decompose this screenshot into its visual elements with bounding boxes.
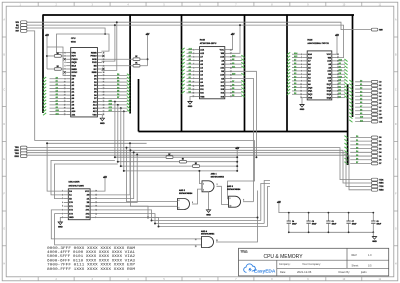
svg-text:A9: A9 [339, 65, 341, 68]
resistor R1 1K RDY pullup [54, 55, 61, 58]
svg-text:A3: A3 [189, 69, 191, 72]
svg-text:Sheet:: Sheet: [352, 264, 360, 267]
capacitor C5 100nF [306, 212, 316, 234]
svg-text:A1: A1 [360, 83, 362, 86]
svg-text:A11: A11 [232, 65, 235, 68]
wire RXD1 across sheet [27, 150, 371, 183]
svg-text:SOB: SOB [92, 59, 97, 61]
svg-text:100nF: 100nF [292, 224, 297, 226]
svg-text:TXD1: TXD1 [15, 147, 19, 149]
wire +5V rail for SOB BE pullups [147, 38, 149, 66]
svg-text:A4: A4 [294, 69, 296, 72]
resistor R7 1K [180, 160, 187, 163]
svg-text:A2: A2 [360, 87, 362, 90]
wire A15 tap vertical to pullup row [114, 102, 116, 158]
svg-text:D7: D7 [379, 163, 381, 165]
capacitor C8 100nF [371, 212, 381, 234]
svg-text:C8: C8 [377, 221, 379, 223]
svg-text:EasyEDA: EasyEDA [254, 268, 276, 274]
wire A12 tap vertical to pullup row [123, 111, 125, 171]
svg-text:D3: D3 [232, 95, 234, 97]
ground decoder [60, 217, 64, 222]
svg-text:D6: D6 [379, 159, 381, 161]
svg-text:A5: A5 [294, 65, 296, 68]
svg-text:3: 3 [217, 184, 218, 186]
svg-text:AND 3: AND 3 [227, 185, 234, 188]
svg-text:RXD1: RXD1 [15, 150, 19, 152]
svg-text:D0: D0 [189, 84, 191, 86]
svg-text:A5: A5 [360, 98, 362, 101]
svg-text:A13: A13 [109, 106, 112, 109]
svg-text:D4: D4 [339, 92, 341, 95]
capacitor C7 100nF [346, 212, 356, 234]
svg-text:D2: D2 [294, 93, 296, 95]
svg-text:D: D [3, 123, 5, 126]
svg-text:SN74HCT139N: SN74HCT139N [69, 184, 85, 187]
svg-text:VSS: VSS [308, 97, 313, 99]
svg-text:100nF: 100nF [377, 224, 382, 226]
svg-text:GND: GND [100, 123, 105, 125]
svg-text:D2: D2 [379, 145, 381, 147]
svg-text:D5: D5 [339, 90, 341, 92]
no-connect marks on CPU pins [64, 58, 66, 60]
svg-text:A3: A3 [360, 90, 362, 93]
svg-text:TXD1: TXD1 [379, 179, 383, 181]
svg-text:A1: A1 [294, 79, 296, 82]
port flag R/W [371, 28, 378, 31]
svg-text:CPU: CPU [71, 38, 76, 40]
svg-text:D4: D4 [232, 91, 234, 94]
svg-text:A3: A3 [56, 86, 58, 89]
svg-text:A13: A13 [339, 59, 342, 62]
svg-text:REV:: REV: [352, 254, 358, 257]
ground below CPU [100, 115, 103, 119]
svg-text:D2: D2 [189, 92, 191, 94]
svg-text:D3: D3 [339, 96, 341, 98]
svg-text:SYNC: SYNC [72, 72, 78, 74]
wire clock rail across top [27, 25, 344, 58]
svg-text:RESB: RESB [91, 52, 97, 54]
svg-text:D3: D3 [379, 148, 381, 150]
wire pullup row 4 [124, 170, 237, 172]
svg-text:Date:: Date: [280, 271, 286, 274]
memory map table text [47, 247, 136, 272]
wire decoder 2G riser [92, 143, 130, 195]
svg-text:CPU & MEMORY: CPU & MEMORY [263, 254, 303, 260]
svg-text:2021-12-06: 2021-12-06 [297, 270, 312, 274]
svg-text:H: H [3, 262, 5, 265]
svg-text:SN74HC08N/4: SN74HC08N/4 [227, 188, 241, 191]
svg-text:NC: NC [94, 69, 97, 71]
svg-text:GND: GND [206, 214, 211, 216]
svg-text:AND 4: AND 4 [201, 230, 208, 233]
svg-text:A14: A14 [294, 52, 297, 55]
svg-text:SN74HC08N/4: SN74HC08N/4 [201, 233, 215, 236]
svg-text:C5: C5 [312, 221, 314, 223]
svg-text:A5: A5 [56, 93, 58, 96]
ground AND1 [208, 191, 210, 210]
svg-text:IRQB: IRQB [72, 62, 78, 64]
svg-text:GND: GND [69, 217, 74, 219]
svg-text:21: 21 [103, 114, 105, 116]
wire CPU VDD to +5V rail [47, 47, 66, 76]
wire ROM CE to AND3 output [229, 79, 254, 202]
wires ROM left pins to bus [182, 47, 196, 93]
decoder U4 SN74HCT139N [62, 182, 97, 220]
svg-text:A7: A7 [56, 99, 58, 102]
svg-text:D0: D0 [117, 74, 119, 76]
ground below RAM [301, 98, 304, 105]
wire select rows turn up at right [258, 181, 271, 227]
svg-text:D6: D6 [356, 158, 358, 160]
svg-text:D3: D3 [356, 147, 358, 149]
svg-text:VCC: VCC [85, 191, 90, 193]
svg-text:100nF: 100nF [332, 224, 337, 226]
svg-text:D5: D5 [379, 156, 381, 158]
svg-text:RXD1: RXD1 [379, 183, 383, 185]
svg-text:D0: D0 [294, 86, 296, 88]
svg-text:A6: A6 [360, 101, 362, 104]
svg-text:6502: 6502 [71, 42, 77, 44]
svg-text:D5: D5 [232, 88, 234, 90]
wire AND2 output to AND1 input2 [192, 189, 202, 204]
svg-text:D7: D7 [356, 162, 358, 164]
bus ROM left vertical [181, 14, 183, 131]
svg-text:1G: 1G [69, 191, 72, 193]
svg-text:A12: A12 [189, 51, 192, 54]
bus bottom horizontal [139, 131, 348, 133]
svg-text:SN74HC08N/4: SN74HC08N/4 [179, 192, 193, 195]
svg-text:DECODER: DECODER [69, 182, 80, 184]
resistor R2 1K NMIB pullup [54, 68, 61, 71]
wire ROM OE to pullup row [229, 71, 257, 157]
EasyEDA logo [244, 264, 276, 274]
svg-text:A8: A8 [56, 103, 58, 106]
svg-text:VCC: VCC [327, 54, 332, 56]
svg-text:A6: A6 [294, 62, 296, 65]
svg-text:A8: A8 [360, 108, 362, 111]
svg-text:A2: A2 [189, 73, 191, 76]
resistor R3 1K SOB pullup [133, 58, 140, 61]
wire AND1 output to AND3 input2 [217, 186, 229, 204]
svg-text:A10: A10 [232, 73, 235, 76]
svg-text:A10: A10 [56, 109, 59, 112]
svg-text:RST: RST [16, 31, 19, 33]
svg-text:VDD: VDD [72, 75, 77, 77]
wire A13 tap vertical to pullup row [120, 108, 122, 166]
svg-text:TITLE:: TITLE: [241, 251, 248, 253]
wires RAM left pins to bus [287, 52, 303, 95]
svg-text:VPB: VPB [72, 52, 77, 54]
svg-text:100nF: 100nF [352, 224, 357, 226]
svg-text:R/W: R/W [379, 29, 383, 31]
wire +5V rail to pullups [46, 39, 48, 69]
svg-text:A4: A4 [360, 94, 362, 97]
title block [239, 248, 389, 276]
svg-text:D1: D1 [356, 140, 358, 142]
wire AND2 input drops [127, 148, 178, 202]
bus RAM left vertical [286, 14, 288, 131]
capacitor C4 100nF [287, 212, 297, 234]
bus RAM right vertical [347, 84, 349, 165]
svg-text:AT28C256-15PU: AT28C256-15PU [200, 42, 217, 45]
svg-text:8000-FFFF 1XXX XXXX XXXX XXXX: 8000-FFFF 1XXX XXXX XXXX XXXX ROM [47, 268, 136, 272]
svg-text:VSS: VSS [92, 114, 97, 116]
svg-text:D7: D7 [232, 81, 234, 83]
svg-text:D2: D2 [117, 81, 119, 83]
wire AND1 input1 [199, 171, 202, 184]
wire VPB RESB loop [57, 34, 110, 53]
svg-text:A11: A11 [339, 69, 342, 72]
svg-text:RAM: RAM [307, 39, 312, 42]
svg-text:D4: D4 [117, 86, 119, 89]
wires decoder inputs 1G 1A 1B [47, 143, 64, 191]
wire CPU PHI2 riser to clock rail [101, 25, 115, 61]
svg-text:AS6C62256A-70PCN: AS6C62256A-70PCN [307, 42, 329, 45]
svg-text:TXD2: TXD2 [15, 153, 19, 155]
ports A0-A11 right edge [349, 80, 382, 124]
wire A14 tap vertical to pullup row [117, 105, 119, 162]
svg-text:D6: D6 [339, 86, 341, 88]
ground below ROM [190, 97, 195, 102]
svg-text:AND 2: AND 2 [179, 189, 186, 192]
svg-text:A3: A3 [294, 72, 296, 75]
svg-text:D1: D1 [294, 90, 296, 92]
wire AND4 output up to select rows [216, 218, 258, 243]
svg-text:A13: A13 [232, 55, 235, 58]
RAM U3 AS6C62256A-70PCN [300, 39, 339, 100]
bus right vertical to A ports [352, 14, 354, 117]
svg-text:C6: C6 [332, 221, 334, 223]
wire CPU RWB riser to top rail [101, 22, 116, 70]
svg-text:D: D [395, 123, 397, 126]
svg-text:A9: A9 [232, 62, 234, 65]
svg-text:A4: A4 [56, 90, 58, 93]
svg-text:Drawn By:: Drawn By: [339, 271, 351, 274]
svg-text:jialin: jialin [360, 270, 367, 274]
resistor R8 1K [193, 165, 200, 168]
wire capacitor top rail [289, 212, 374, 214]
svg-text:VSS: VSS [200, 96, 205, 98]
svg-text:ROM: ROM [200, 40, 205, 42]
svg-text:D1: D1 [379, 141, 381, 143]
svg-text:A0: A0 [189, 80, 191, 83]
ports D0-D7 right edge [344, 136, 381, 166]
svg-text:A1: A1 [189, 76, 191, 79]
wire select rows to right [148, 218, 268, 227]
svg-text:A10: A10 [360, 116, 363, 119]
svg-text:D0: D0 [356, 136, 358, 138]
svg-text:2G: 2G [87, 195, 90, 197]
svg-text:A0: A0 [360, 80, 362, 83]
wire AND3 output to ROM CE [243, 201, 254, 203]
wires decoder outputs 1Y2 1Y3 to AND4 [51, 210, 201, 239]
svg-text:A6: A6 [56, 96, 58, 99]
svg-text:A7: A7 [189, 55, 191, 58]
bus left vertical (CPU address) [42, 14, 44, 113]
svg-text:D0: D0 [379, 137, 381, 139]
svg-text:A0: A0 [294, 82, 296, 85]
svg-text:SN74HC08N/4: SN74HC08N/4 [211, 175, 225, 178]
wires decoder outputs 2Y to select rows [92, 206, 148, 217]
svg-text:D4: D4 [356, 150, 358, 153]
svg-text:A12: A12 [294, 55, 297, 58]
connector P1 control signals [16, 21, 27, 33]
svg-text:GND: GND [58, 227, 63, 229]
svg-text:A12: A12 [109, 109, 112, 112]
bus main top horizontal [43, 14, 354, 16]
svg-text:A11: A11 [56, 112, 59, 115]
svg-text:A9: A9 [56, 106, 58, 109]
svg-text:A2: A2 [294, 75, 296, 78]
svg-text:A1: A1 [56, 80, 58, 83]
svg-text:D6: D6 [117, 94, 119, 96]
svg-text:A2: A2 [56, 83, 58, 86]
wires decoder 2A 2B risers [92, 152, 133, 198]
wires CPU D0-D7 to data bus [101, 74, 130, 99]
wire ROM WE riser to clock rail [229, 25, 240, 53]
wire RST to CPU RESB [27, 28, 105, 34]
svg-text:A14: A14 [109, 103, 112, 106]
svg-text:D6: D6 [232, 84, 234, 86]
svg-text:RXD2: RXD2 [379, 190, 383, 192]
svg-text:A9: A9 [360, 112, 362, 115]
svg-text:A14: A14 [189, 47, 192, 50]
ground capacitor bank [372, 232, 374, 236]
ROM U2 AT28C256-15PU [193, 40, 232, 99]
wires RAM right pins to bus [336, 59, 348, 99]
svg-text:A5: A5 [189, 62, 191, 65]
svg-text:10: 10 [230, 205, 232, 207]
svg-text:G: G [395, 228, 397, 231]
bus ROM right vertical [244, 14, 246, 131]
svg-text:GND: GND [372, 241, 377, 243]
svg-text:D7: D7 [339, 83, 341, 85]
svg-text:H: H [395, 262, 397, 265]
svg-text:MLB: MLB [72, 65, 77, 67]
svg-text:G: G [3, 228, 5, 231]
svg-text:1/5: 1/5 [368, 264, 372, 267]
wires ROM right pins to bus [229, 55, 245, 98]
svg-text:Company:: Company: [279, 263, 291, 266]
svg-text:GND: GND [188, 106, 193, 108]
svg-text:D1: D1 [117, 77, 119, 79]
svg-text:C: C [395, 88, 397, 91]
wire R/W rail across top [27, 22, 371, 29]
wire conn pin4 to mid rail [27, 31, 35, 141]
svg-text:D7: D7 [117, 97, 119, 99]
svg-text:A8: A8 [232, 58, 234, 61]
wire rail to gate AND3 [35, 141, 255, 199]
svg-text:RXD2: RXD2 [15, 156, 19, 158]
svg-text:A11: A11 [360, 119, 363, 122]
svg-text:100nF: 100nF [312, 224, 317, 226]
svg-text:D3: D3 [117, 84, 119, 86]
svg-text:Your Company: Your Company [302, 262, 321, 266]
resistor R4 1K BE pullup [133, 64, 140, 67]
connector P2 serial signals [15, 146, 27, 158]
svg-text:PHI2O: PHI2O [90, 56, 97, 58]
svg-text:A0: A0 [56, 76, 58, 79]
svg-text:AND 1: AND 1 [211, 173, 218, 176]
resistor R6 1K [166, 156, 173, 159]
wire RXD2 across sheet [27, 155, 371, 190]
wires CPU A0-A11 to address bus [43, 76, 66, 115]
svg-text:A10: A10 [339, 75, 342, 78]
svg-text:13: 13 [195, 246, 197, 248]
svg-text:A4: A4 [189, 65, 191, 68]
svg-text:1.0: 1.0 [368, 254, 372, 257]
svg-text:VCC: VCC [220, 49, 225, 51]
svg-text:D5: D5 [356, 155, 358, 157]
svg-text:PHI1O: PHI1O [72, 59, 79, 61]
svg-text:A6: A6 [189, 58, 191, 61]
bus CPU right vertical [129, 14, 131, 113]
svg-text:D1: D1 [189, 88, 191, 90]
wires CPU A15-A12 to bus with taps to decoder [101, 99, 130, 112]
svg-text:A8: A8 [339, 62, 341, 65]
svg-text:A15: A15 [109, 99, 112, 102]
svg-text:C: C [3, 88, 5, 91]
wire TXD2 across sheet [27, 153, 371, 187]
svg-text:37: 37 [103, 62, 105, 64]
ports serial right edge [371, 178, 383, 191]
svg-text:D5: D5 [117, 91, 119, 93]
svg-text:GND: GND [300, 109, 305, 111]
wire rail 2 mid sheet [46, 142, 147, 144]
svg-text:RWB: RWB [92, 72, 97, 74]
wire capacitor bottom rail [289, 231, 374, 233]
CPU U1 6502 [64, 38, 105, 117]
svg-text:TXD2: TXD2 [379, 186, 383, 188]
capacitor C6 100nF [326, 212, 336, 234]
svg-text:A7: A7 [294, 59, 296, 62]
bus data vertical at CPU [138, 79, 140, 132]
svg-text:C7: C7 [352, 221, 354, 223]
svg-text:12: 12 [195, 239, 197, 241]
svg-text:A7: A7 [360, 105, 362, 108]
svg-text:D2: D2 [356, 144, 358, 146]
svg-text:RDY: RDY [72, 56, 77, 58]
svg-text:NMIB: NMIB [72, 69, 78, 71]
wire TXD1 across sheet [27, 148, 371, 180]
